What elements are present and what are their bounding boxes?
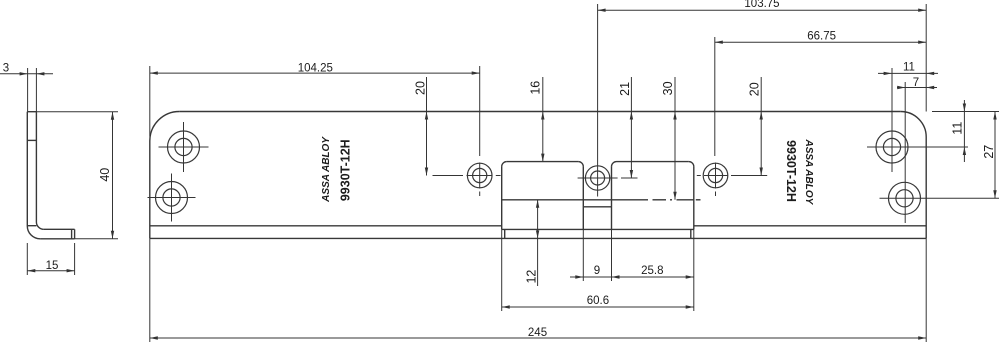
dim 245 line (150, 337, 926, 339)
dim 103.75 line (598, 9, 927, 11)
strike box tab left edge + ext (582, 167, 584, 230)
strike box left rect left side + ext (501, 167, 503, 230)
svg-text:40: 40 (98, 168, 112, 182)
dim 104.25 line (150, 72, 480, 74)
plate top edge (179, 111, 900, 113)
dim 15 ext lines (26, 243, 28, 275)
dim 3 ext lines (27, 68, 29, 112)
lip corner tick right (690, 229, 692, 238)
plate right edge (925, 137, 927, 238)
side view leg bottom edge (40, 238, 75, 240)
svg-text:104.25: 104.25 (298, 62, 333, 74)
svg-text:245: 245 (528, 327, 547, 339)
hole top-right crosshair (867, 146, 968, 148)
dim 40 ext lines (37, 111, 118, 113)
strike box right rect corners (612, 162, 617, 167)
hole center inner (591, 171, 605, 185)
dim 66.75 line (715, 41, 926, 43)
plate bottom face line left part (150, 225, 502, 227)
svg-text:11: 11 (903, 62, 915, 74)
dim 11 right line (963, 100, 965, 162)
dim 60.6 line (502, 306, 694, 308)
dim 40 line (112, 112, 114, 239)
hole top-left outer (168, 131, 200, 163)
strike box tab right edge + ext (611, 167, 613, 230)
hole mid-left outer (467, 163, 492, 188)
center section face line (502, 228, 694, 230)
dim 30 line (674, 77, 676, 200)
hole mid-left crosshair (467, 175, 493, 177)
hole mid-right crosshair (697, 175, 701, 177)
side view outer vertical edge (26, 112, 28, 226)
svg-text:66.75: 66.75 (807, 30, 836, 42)
dim 245 ext left (149, 238, 151, 342)
hole top-left inner (175, 138, 192, 155)
strike box step line dash-dot tail (653, 199, 667, 201)
dim 3 line (0, 73, 53, 75)
svg-text:30: 30 (661, 81, 675, 95)
svg-text:20: 20 (747, 82, 761, 96)
dim 21 ext (621, 177, 638, 179)
svg-text:ASSA ABLOY: ASSA ABLOY (321, 136, 332, 203)
dim 12 line (537, 200, 539, 286)
hole mid-right inner (708, 168, 722, 182)
side view inner bend arc (36, 222, 43, 229)
side view tick mid (27, 139, 36, 141)
plate bottom face line right part (694, 225, 926, 227)
svg-text:16: 16 (529, 81, 543, 95)
svg-text:21: 21 (618, 82, 632, 96)
hole bottom-left crosshair (148, 197, 196, 199)
svg-text:7: 7 (913, 77, 919, 89)
hole bottom-left outer (156, 182, 188, 214)
strike box right rect top edge (617, 161, 689, 163)
dim 20 right ext (736, 175, 767, 177)
side view leg end cap (74, 229, 76, 239)
strike box step line solid (502, 199, 648, 201)
dim 20 left line (426, 77, 428, 176)
plate top-left corner arc (150, 112, 180, 142)
dim 11 top line (878, 72, 938, 74)
dim 20 right line (760, 77, 762, 176)
hole mid-left inner (473, 168, 487, 182)
svg-text:20: 20 (413, 81, 427, 95)
dim 20 left ext (433, 175, 464, 177)
dim 103.75 ext right (925, 4, 927, 112)
dim 104.25 ext left (149, 66, 151, 137)
hole bottom-right crosshair (880, 197, 1000, 199)
hole bottom-right outer (889, 182, 921, 214)
svg-text:103.75: 103.75 (744, 0, 779, 10)
plate top-right corner arc (901, 112, 927, 138)
svg-text:3: 3 (3, 62, 9, 74)
svg-text:9: 9 (594, 265, 600, 277)
dim 27 line (994, 112, 996, 199)
svg-text:ASSA ABLOY: ASSA ABLOY (803, 138, 814, 205)
dim 11 right ext top (932, 111, 999, 113)
hole bottom-left inner (163, 189, 180, 206)
lip corner tick left (504, 229, 506, 238)
plate left edge (149, 141, 151, 238)
side view outer bend arc (27, 226, 40, 239)
strike box left rect corners (502, 162, 507, 167)
dim 15 line (27, 270, 74, 272)
dim 25.8 line (612, 276, 694, 278)
hole center outer (585, 166, 609, 190)
svg-text:12: 12 (525, 270, 539, 284)
dim 66.75 ext left (714, 37, 716, 156)
hole bottom-right inner (896, 190, 913, 207)
strike box right rect right side + ext (693, 167, 695, 230)
strike box tab bottom edge (583, 206, 611, 208)
dim 103.75 ext left (597, 4, 599, 162)
svg-text:9930T-12H: 9930T-12H (338, 139, 352, 201)
svg-text:15: 15 (46, 260, 59, 272)
dim 245 ext right (925, 238, 927, 342)
strike box left rect top edge (507, 161, 579, 163)
hole top-right inner (883, 138, 900, 155)
side view bend tangent tick (27, 225, 36, 227)
svg-text:27: 27 (982, 145, 996, 159)
lip bottom edge (150, 237, 926, 239)
hole center crosshair (578, 177, 618, 179)
dim 21 line (630, 77, 632, 178)
svg-text:11: 11 (950, 122, 964, 135)
side view leg inner top edge (44, 228, 75, 230)
side view leg end inner line (71, 229, 73, 239)
dim 7 line (897, 87, 937, 89)
hole top-right outer (876, 131, 908, 163)
dim 9 line (570, 276, 620, 278)
svg-text:9930T-12H: 9930T-12H (784, 140, 798, 202)
side view top edge cap (27, 111, 37, 113)
side view inner vertical edge (35, 112, 37, 222)
svg-text:25.8: 25.8 (641, 265, 663, 277)
hole top-left crosshair (159, 146, 209, 148)
hole mid-right outer (703, 163, 728, 188)
dim 104.25 ext right (479, 66, 481, 156)
dim 16 line (542, 77, 544, 162)
svg-text:60.6: 60.6 (587, 295, 609, 307)
